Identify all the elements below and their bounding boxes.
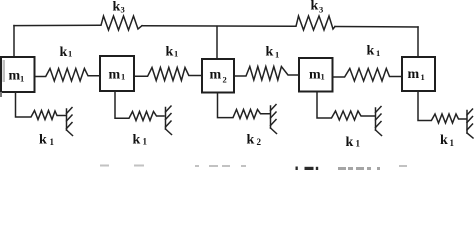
svg-text:1: 1 (68, 49, 72, 59)
svg-text:k: k (346, 135, 354, 150)
svg-text:1: 1 (143, 137, 148, 147)
svg-text:k: k (60, 45, 68, 60)
svg-text:3: 3 (121, 5, 125, 15)
svg-text:1: 1 (275, 50, 279, 60)
svg-text:m: m (309, 68, 321, 83)
svg-text:3: 3 (319, 5, 323, 15)
svg-text:2: 2 (223, 75, 227, 85)
svg-text:k: k (367, 44, 375, 59)
svg-text:k: k (133, 133, 141, 148)
svg-text:1: 1 (20, 74, 24, 84)
svg-text:1: 1 (174, 49, 178, 59)
svg-text:1: 1 (50, 137, 55, 147)
svg-text:m: m (210, 68, 222, 83)
svg-text:k: k (266, 45, 274, 60)
svg-text:1: 1 (356, 139, 361, 149)
svg-text:m: m (109, 68, 121, 83)
svg-text:k: k (39, 133, 47, 148)
svg-text:m: m (9, 69, 21, 84)
svg-text:k: k (440, 133, 448, 148)
svg-text:1: 1 (450, 138, 455, 148)
svg-text:2: 2 (257, 137, 262, 147)
svg-text:1: 1 (121, 72, 125, 82)
svg-text:k: k (113, 0, 121, 15)
svg-text:m: m (408, 67, 420, 82)
svg-text:k: k (311, 0, 319, 14)
svg-text:1: 1 (321, 72, 325, 82)
svg-text:1: 1 (376, 48, 380, 58)
svg-text:1: 1 (421, 72, 425, 82)
svg-text:k: k (166, 45, 174, 60)
svg-text:k: k (247, 133, 255, 148)
